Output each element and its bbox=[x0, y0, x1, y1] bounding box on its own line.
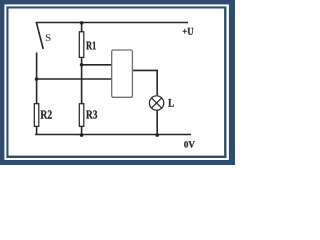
wire R3 bottom stub bbox=[81, 126, 83, 134]
wire top rail +U bbox=[36, 22, 188, 24]
border frame outer navy bbox=[0, 0, 235, 165]
resistor R2 bbox=[34, 104, 39, 127]
node junction lamp / bottom rail bbox=[155, 133, 159, 137]
label S bbox=[46, 34, 51, 41]
node junction top rail / R1 bbox=[80, 21, 84, 25]
wire R2 top stub bbox=[36, 79, 38, 104]
wire lamp bottom stub bbox=[156, 110, 158, 134]
wire switch node to block input 2 bbox=[37, 78, 112, 80]
node junction R1 bottom bbox=[80, 63, 84, 67]
wire node to block input 1 bbox=[82, 64, 112, 66]
node junction R3 / bottom rail bbox=[80, 133, 84, 137]
amplifier block U1 bbox=[112, 50, 133, 97]
label R2 bbox=[41, 110, 52, 118]
wire node down to R3 bbox=[81, 65, 83, 104]
wire switch lower stub down to node bbox=[36, 53, 38, 80]
wire bottom rail 0V bbox=[35, 134, 191, 136]
label 0V bbox=[184, 141, 195, 147]
label L bbox=[168, 99, 174, 107]
border frame inner navy ring bbox=[6, 6, 226, 158]
switch S blade bbox=[36, 23, 43, 50]
label R3 bbox=[86, 110, 97, 118]
wire R2 bottom stub bbox=[36, 126, 38, 134]
resistor R1 bbox=[79, 32, 84, 58]
lamp L bbox=[149, 96, 163, 110]
wire R1 bottom stub bbox=[81, 57, 83, 64]
wire R1 top stub bbox=[81, 23, 83, 32]
label R1 bbox=[86, 42, 96, 50]
label +U bbox=[183, 28, 194, 35]
border frame white ring bbox=[4, 4, 229, 160]
interior background bbox=[9, 9, 225, 156]
resistor R3 bbox=[79, 104, 84, 127]
node junction switch / R2 bbox=[35, 77, 39, 81]
wire block output to lamp bbox=[132, 70, 157, 95]
